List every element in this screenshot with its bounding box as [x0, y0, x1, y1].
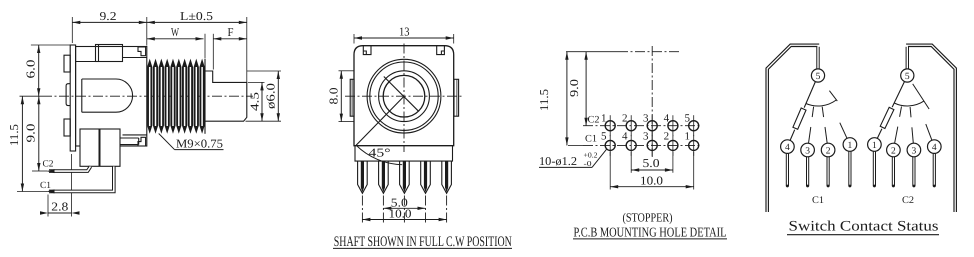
svg-text:4: 4: [785, 143, 790, 153]
svg-text:11.5: 11.5: [7, 124, 21, 146]
svg-text:5: 5: [816, 72, 821, 82]
svg-text:4.5: 4.5: [247, 92, 261, 111]
svg-text:C1: C1: [40, 181, 51, 191]
svg-text:SHAFT SHOWN IN FULL C.W POSITI: SHAFT SHOWN IN FULL C.W POSITION: [334, 234, 512, 250]
svg-text:-0: -0: [584, 159, 592, 168]
svg-text:1: 1: [848, 141, 853, 151]
svg-text:9.0: 9.0: [24, 124, 38, 143]
svg-text:5: 5: [684, 112, 690, 124]
svg-text:8.0: 8.0: [327, 88, 341, 105]
svg-text:13: 13: [399, 25, 410, 39]
svg-text:9.2: 9.2: [100, 9, 117, 23]
svg-text:W: W: [171, 25, 179, 39]
svg-text:5: 5: [601, 131, 607, 143]
svg-text:4: 4: [932, 143, 937, 153]
svg-text:2: 2: [891, 146, 896, 156]
svg-text:2: 2: [622, 112, 628, 124]
svg-text:Switch Contact Status: Switch Contact Status: [789, 219, 939, 235]
svg-text:45°: 45°: [369, 146, 391, 160]
svg-text:1: 1: [684, 131, 690, 143]
svg-text:C2: C2: [902, 195, 914, 206]
svg-text:3: 3: [805, 146, 810, 156]
svg-text:3: 3: [643, 131, 649, 143]
svg-text:C2: C2: [43, 160, 54, 170]
svg-text:5.0: 5.0: [643, 156, 660, 170]
svg-text:1: 1: [872, 141, 877, 151]
svg-text:(STOPPER): (STOPPER): [623, 210, 673, 224]
svg-text:6.0: 6.0: [24, 60, 38, 79]
svg-text:4: 4: [664, 112, 670, 124]
svg-text:F: F: [228, 25, 234, 39]
svg-text:2: 2: [664, 131, 670, 143]
svg-text:3: 3: [643, 112, 649, 124]
svg-text:10.0: 10.0: [640, 173, 663, 187]
svg-text:2.8: 2.8: [51, 200, 68, 214]
svg-text:4: 4: [622, 131, 628, 143]
svg-text:5: 5: [905, 72, 910, 82]
svg-text:10-ø1.2: 10-ø1.2: [539, 154, 577, 168]
svg-text:C1: C1: [812, 195, 824, 206]
svg-text:1: 1: [601, 112, 607, 124]
svg-text:C2: C2: [588, 114, 600, 125]
svg-text:C1: C1: [585, 134, 597, 145]
svg-text:L±0.5: L±0.5: [180, 9, 213, 23]
svg-text:P.C.B MOUNTING HOLE DETAIL: P.C.B MOUNTING HOLE DETAIL: [574, 224, 727, 239]
svg-text:2: 2: [826, 146, 831, 156]
svg-text:11.5: 11.5: [537, 89, 551, 111]
svg-text:10.0: 10.0: [389, 206, 412, 220]
svg-text:ø6.0: ø6.0: [264, 83, 278, 109]
svg-text:M9×0.75: M9×0.75: [176, 136, 223, 150]
svg-text:9.0: 9.0: [567, 79, 581, 97]
svg-text:3: 3: [912, 146, 917, 156]
